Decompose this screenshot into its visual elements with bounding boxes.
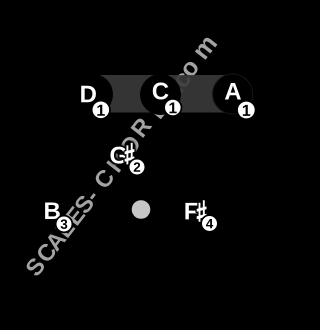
watermark letter c (174, 71, 192, 89)
watermark letter O (118, 134, 141, 157)
watermark scales-chords.com (23, 34, 219, 278)
watermark letter A (44, 230, 66, 252)
note circle A (213, 74, 253, 114)
finger badge 3 on B (55, 215, 73, 233)
label A (225, 83, 241, 100)
watermark letter S (158, 86, 180, 107)
watermark letter L (55, 219, 75, 238)
finger badge 1 on D (91, 100, 111, 120)
sharp sign of G# (125, 143, 135, 165)
finger badge 4 on F sharp (200, 214, 218, 232)
note circle D (71, 74, 113, 116)
watermark letter . (178, 88, 183, 93)
watermark letter m (195, 36, 218, 60)
watermark letter D (148, 98, 170, 119)
sharp sign of F# (197, 200, 207, 222)
fret marker dot (132, 200, 151, 219)
finger badge 1 on C (163, 98, 182, 117)
label D (81, 86, 96, 103)
label F sharp (185, 200, 206, 222)
watermark letter o (181, 60, 200, 79)
watermark letter C (35, 241, 58, 263)
watermark letter E (65, 205, 86, 225)
watermark letter R (130, 116, 152, 138)
label G sharp (110, 143, 134, 165)
label B (45, 202, 60, 219)
watermark letter - (90, 193, 96, 199)
finger badge 2 on G sharp (128, 158, 146, 176)
watermark letter C (93, 168, 116, 190)
note circle C (140, 74, 181, 115)
watermark letter S (24, 256, 46, 277)
watermark letter H (106, 152, 127, 173)
watermark letter S (73, 194, 95, 215)
fret bar (86, 75, 238, 113)
label C (153, 83, 169, 100)
finger badge 1 on A (236, 100, 256, 120)
